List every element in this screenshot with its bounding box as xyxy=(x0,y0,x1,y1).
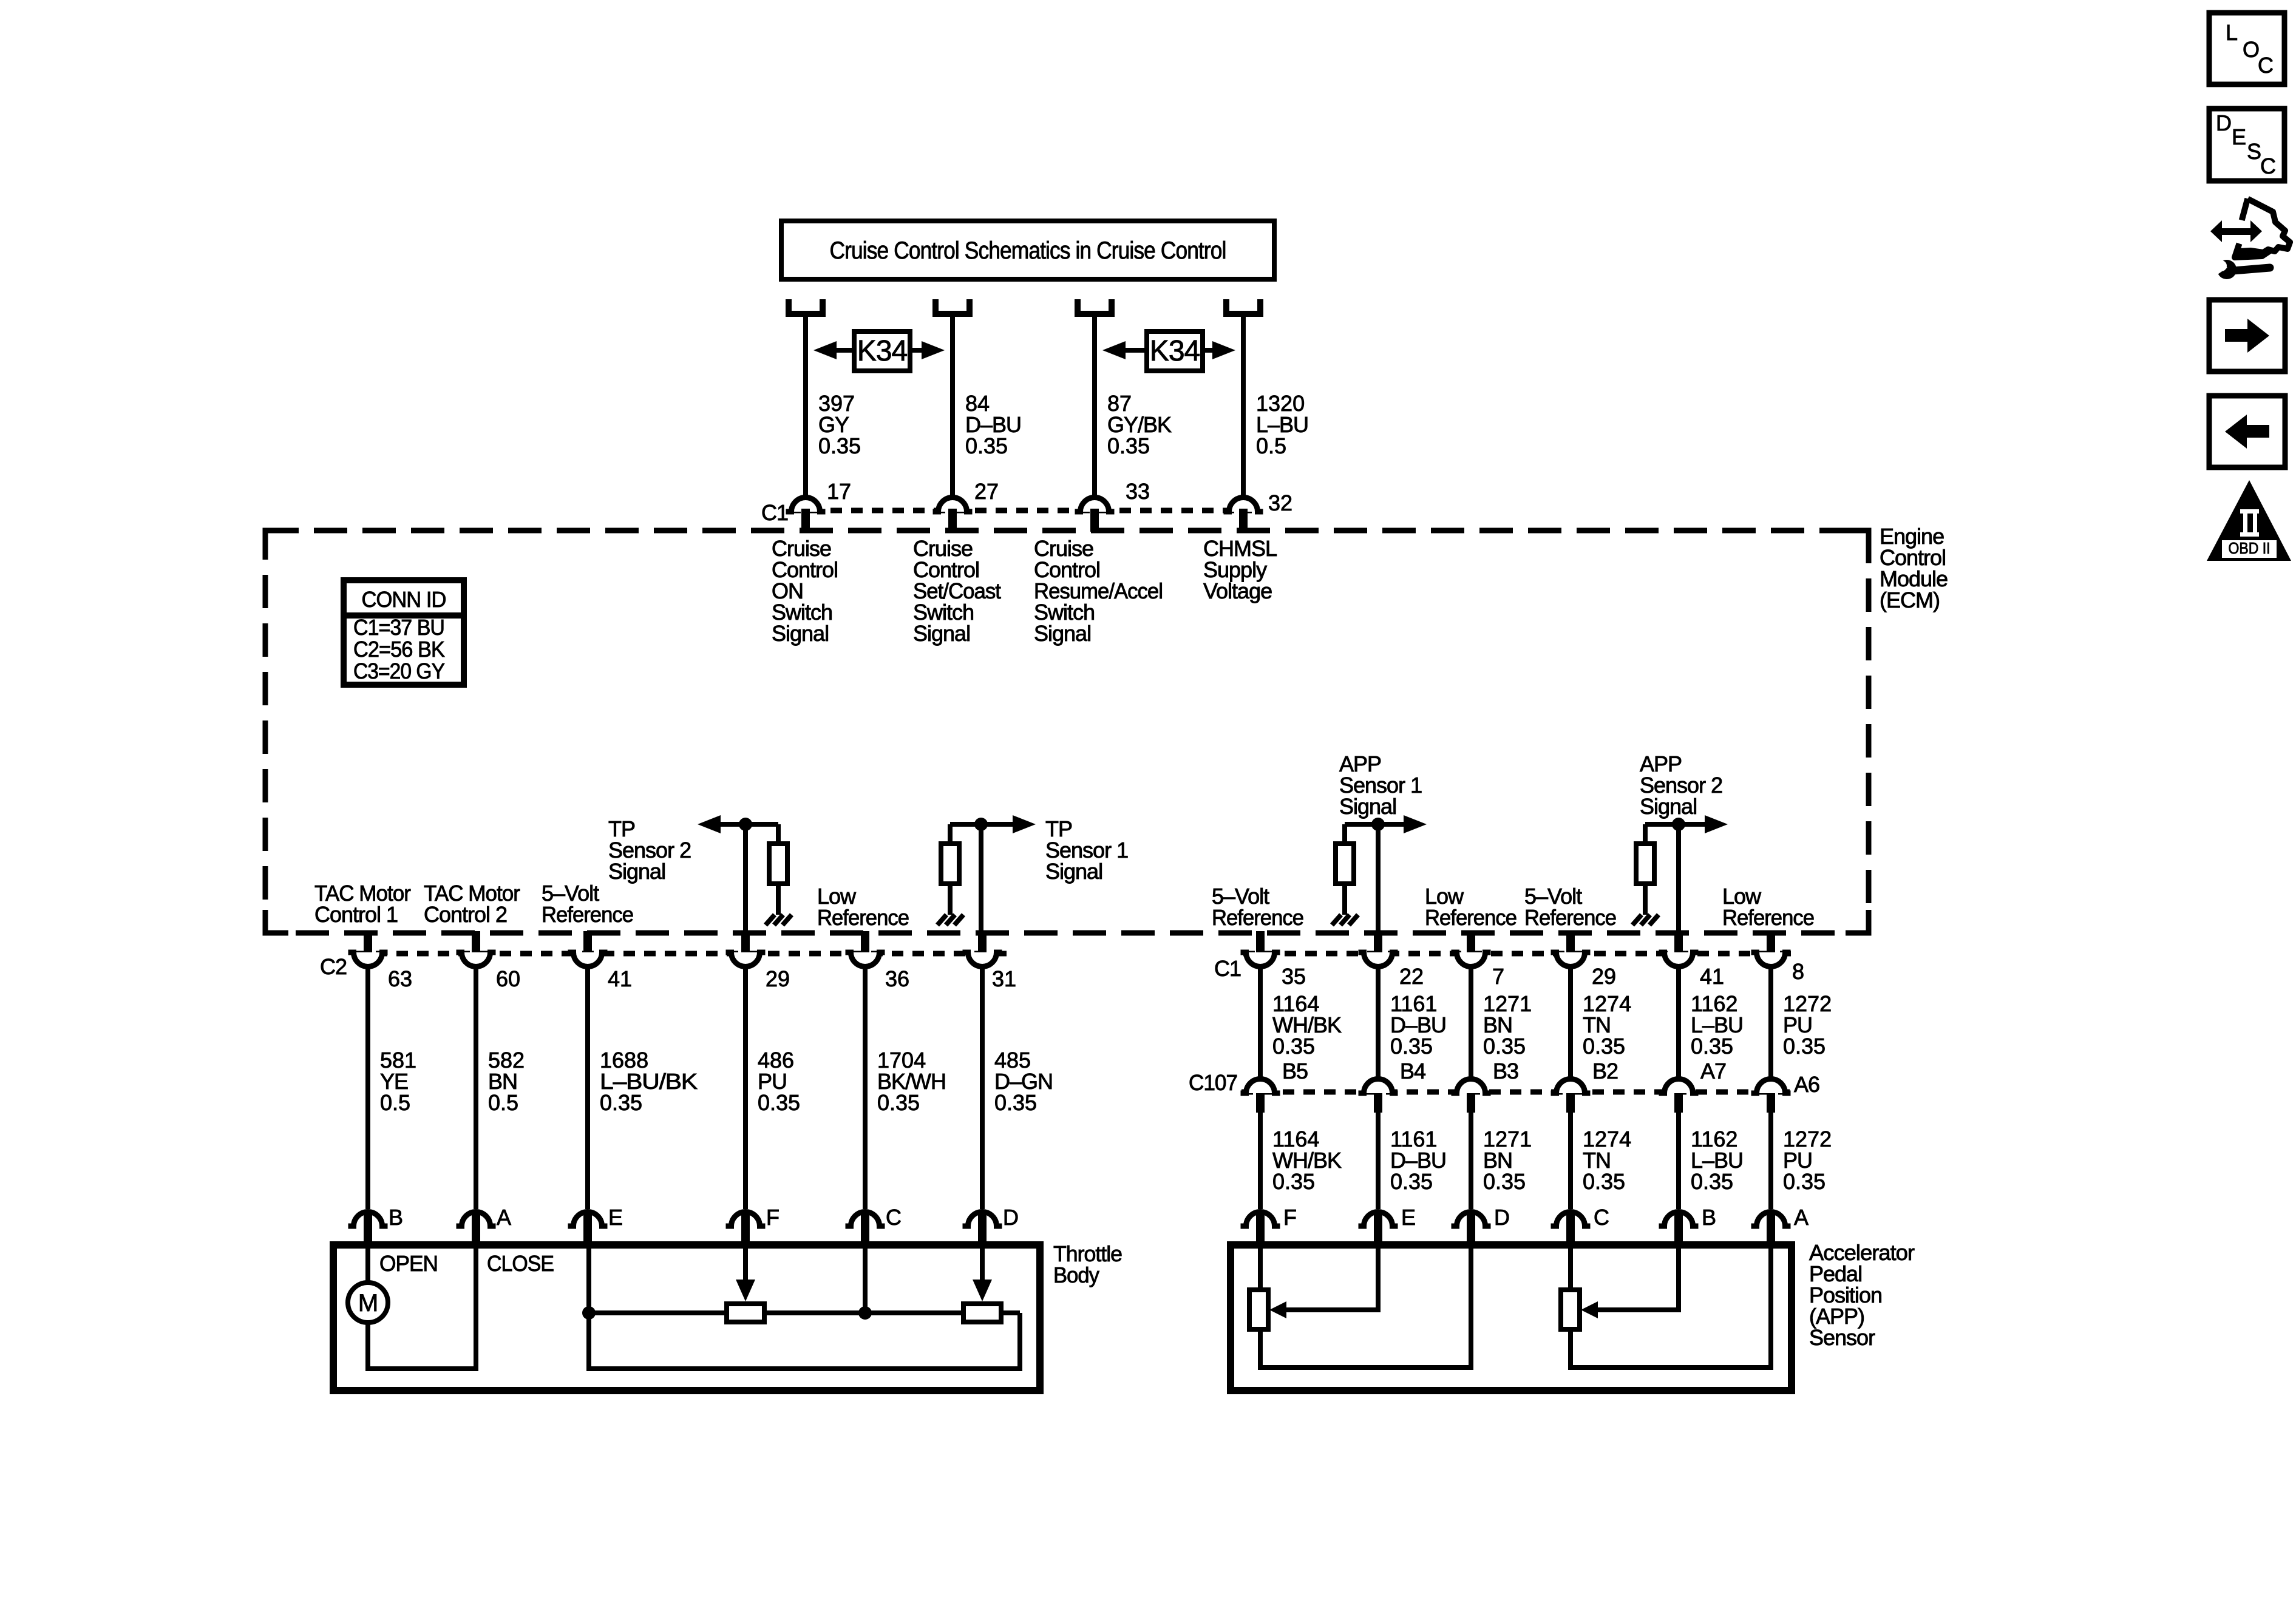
svg-text:0.35: 0.35 xyxy=(1390,1169,1433,1194)
svg-text:C: C xyxy=(1594,1205,1609,1230)
svg-text:35: 35 xyxy=(1282,964,1306,989)
svg-text:A: A xyxy=(1794,1205,1809,1230)
svg-text:E: E xyxy=(2232,124,2246,149)
svg-text:(ECM): (ECM) xyxy=(1880,588,1940,612)
svg-text:E: E xyxy=(608,1205,622,1230)
svg-text:C107: C107 xyxy=(1189,1070,1237,1095)
svg-text:29: 29 xyxy=(1592,964,1616,989)
svg-text:8: 8 xyxy=(1792,959,1804,984)
svg-text:B5: B5 xyxy=(1282,1059,1308,1083)
svg-text:E: E xyxy=(1401,1205,1415,1230)
svg-text:0.35: 0.35 xyxy=(1783,1169,1826,1194)
svg-text:0.35: 0.35 xyxy=(818,433,861,458)
svg-text:C1: C1 xyxy=(1214,956,1241,981)
svg-text:C: C xyxy=(886,1205,901,1230)
svg-text:OBD II: OBD II xyxy=(2229,539,2271,557)
svg-text:32: 32 xyxy=(1268,490,1292,515)
svg-text:36: 36 xyxy=(885,966,909,991)
svg-text:Reference: Reference xyxy=(1524,905,1616,930)
svg-text:0.5: 0.5 xyxy=(488,1090,518,1115)
svg-text:27: 27 xyxy=(974,479,999,504)
svg-text:B4: B4 xyxy=(1400,1059,1425,1083)
svg-text:C2: C2 xyxy=(320,954,347,979)
svg-text:F: F xyxy=(1283,1205,1296,1230)
svg-text:C1: C1 xyxy=(761,500,788,525)
svg-text:Reference: Reference xyxy=(817,905,909,930)
svg-text:60: 60 xyxy=(496,966,520,991)
svg-text:S: S xyxy=(2247,139,2261,164)
svg-text:7: 7 xyxy=(1492,964,1504,989)
svg-text:L: L xyxy=(2226,20,2237,45)
svg-text:0.35: 0.35 xyxy=(965,433,1008,458)
svg-text:0.35: 0.35 xyxy=(1107,433,1150,458)
svg-text:Reference: Reference xyxy=(1425,905,1517,930)
svg-text:31: 31 xyxy=(992,966,1016,991)
svg-text:D: D xyxy=(1003,1205,1018,1230)
svg-text:A: A xyxy=(497,1205,511,1230)
svg-text:C1=37 BU: C1=37 BU xyxy=(353,615,444,640)
svg-text:Cruise Control Schematics in C: Cruise Control Schematics in Cruise Cont… xyxy=(830,237,1226,264)
svg-text:0.35: 0.35 xyxy=(758,1090,800,1115)
svg-text:Signal: Signal xyxy=(1045,859,1102,884)
svg-text:C3=20 GY: C3=20 GY xyxy=(353,659,445,683)
svg-text:Voltage: Voltage xyxy=(1203,578,1272,603)
svg-text:0.35: 0.35 xyxy=(1583,1034,1625,1059)
svg-text:Signal: Signal xyxy=(608,859,665,884)
svg-text:33: 33 xyxy=(1126,479,1150,504)
svg-text:0.35: 0.35 xyxy=(1783,1034,1826,1059)
svg-text:29: 29 xyxy=(766,966,790,991)
svg-text:Signal: Signal xyxy=(1339,794,1396,819)
svg-text:0.5: 0.5 xyxy=(380,1090,410,1115)
svg-text:41: 41 xyxy=(1700,964,1724,989)
svg-text:0.35: 0.35 xyxy=(1483,1169,1526,1194)
svg-text:Signal: Signal xyxy=(1034,621,1091,646)
svg-text:C2=56 BK: C2=56 BK xyxy=(353,637,445,662)
svg-text:Body: Body xyxy=(1053,1263,1099,1287)
svg-text:0.35: 0.35 xyxy=(1272,1169,1315,1194)
svg-text:Sensor: Sensor xyxy=(1809,1325,1875,1350)
svg-text:OPEN: OPEN xyxy=(379,1251,438,1276)
svg-text:0.35: 0.35 xyxy=(1390,1034,1433,1059)
svg-text:41: 41 xyxy=(608,966,632,991)
svg-text:63: 63 xyxy=(388,966,412,991)
svg-text:D: D xyxy=(1494,1205,1509,1230)
svg-text:0.35: 0.35 xyxy=(1691,1169,1733,1194)
svg-text:M: M xyxy=(358,1290,378,1317)
svg-text:C: C xyxy=(2258,53,2273,78)
svg-text:0.5: 0.5 xyxy=(1256,433,1286,458)
svg-text:0.35: 0.35 xyxy=(1691,1034,1733,1059)
svg-text:Signal: Signal xyxy=(1640,794,1697,819)
svg-text:A6: A6 xyxy=(1794,1072,1819,1097)
svg-text:A7: A7 xyxy=(1700,1059,1726,1083)
svg-text:CONN ID: CONN ID xyxy=(362,587,446,612)
svg-text:Signal: Signal xyxy=(913,621,970,646)
svg-text:0.35: 0.35 xyxy=(877,1090,920,1115)
svg-text:Signal: Signal xyxy=(772,621,829,646)
svg-text:0.35: 0.35 xyxy=(1483,1034,1526,1059)
svg-text:Control 2: Control 2 xyxy=(424,902,507,927)
svg-text:17: 17 xyxy=(827,479,851,504)
svg-text:B: B xyxy=(389,1205,402,1230)
svg-text:Reference: Reference xyxy=(1722,905,1814,930)
svg-text:CLOSE: CLOSE xyxy=(487,1251,554,1276)
svg-text:B2: B2 xyxy=(1592,1059,1618,1083)
svg-text:B3: B3 xyxy=(1493,1059,1518,1083)
svg-text:22: 22 xyxy=(1399,964,1424,989)
svg-text:K34: K34 xyxy=(857,335,908,367)
svg-text:Reference: Reference xyxy=(542,902,633,927)
svg-text:O: O xyxy=(2243,37,2259,62)
svg-text:Reference: Reference xyxy=(1212,905,1303,930)
svg-text:Control 1: Control 1 xyxy=(314,902,398,927)
svg-text:0.35: 0.35 xyxy=(600,1090,642,1115)
svg-text:K34: K34 xyxy=(1150,335,1200,367)
svg-text:0.35: 0.35 xyxy=(1583,1169,1625,1194)
svg-text:F: F xyxy=(766,1205,779,1230)
svg-text:C: C xyxy=(2260,154,2275,178)
svg-text:0.35: 0.35 xyxy=(1272,1034,1315,1059)
svg-text:0.35: 0.35 xyxy=(994,1090,1037,1115)
svg-text:D: D xyxy=(2216,110,2231,135)
svg-text:B: B xyxy=(1702,1205,1716,1230)
